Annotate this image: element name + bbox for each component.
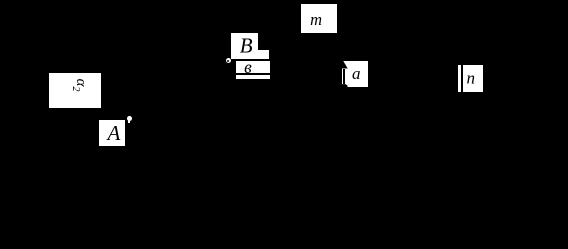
label box v (Cyrillic ve) — [236, 61, 270, 74]
label box A — [99, 120, 125, 146]
black wedge at bottom-left of a box — [342, 84, 348, 87]
step rectangle right of B — [258, 50, 270, 58]
label box alpha2 (rotated) — [49, 73, 102, 107]
point dot near A — [127, 116, 132, 121]
point ring near B — [226, 58, 231, 63]
arrow head (up) in a box — [342, 61, 350, 69]
label box a with acceleration arrow — [342, 61, 368, 87]
label box B — [231, 33, 258, 59]
label box m — [301, 4, 337, 33]
strip below v — [236, 75, 270, 79]
arrow shaft in a box — [343, 69, 345, 85]
label box n with vertical line — [458, 65, 484, 92]
